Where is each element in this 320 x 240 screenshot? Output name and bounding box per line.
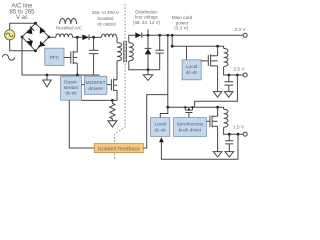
svg-text:Rectified A/C: Rectified A/C bbox=[56, 26, 83, 31]
svg-text:3.3 V: 3.3 V bbox=[234, 27, 246, 33]
svg-text:(48, 24, 12 V): (48, 24, 12 V) bbox=[133, 20, 161, 25]
svg-text:V ac: V ac bbox=[16, 15, 28, 21]
svg-text:(3.3 V): (3.3 V) bbox=[174, 25, 189, 30]
svg-text:Distribution: Distribution bbox=[135, 9, 158, 14]
svg-text:2.5 V: 2.5 V bbox=[233, 66, 245, 72]
svg-text:dc-dc: dc-dc bbox=[65, 91, 77, 97]
svg-text:Down-: Down- bbox=[64, 80, 78, 86]
svg-text:dc-dc: dc-dc bbox=[186, 70, 198, 76]
svg-text:365- to 400-V: 365- to 400-V bbox=[92, 10, 119, 15]
svg-text:buck driver: buck driver bbox=[179, 128, 202, 133]
svg-text:Local: Local bbox=[186, 64, 197, 70]
svg-text:Isolated feedback: Isolated feedback bbox=[98, 146, 141, 152]
svg-text:Synchronous: Synchronous bbox=[177, 122, 205, 127]
svg-text:PFC: PFC bbox=[50, 55, 60, 61]
svg-text:dc-dc: dc-dc bbox=[154, 128, 166, 134]
svg-text:boosted: boosted bbox=[97, 16, 114, 21]
svg-text:drivers: drivers bbox=[88, 86, 103, 92]
svg-text:MOSFET: MOSFET bbox=[86, 80, 106, 86]
svg-text:stream: stream bbox=[64, 85, 79, 91]
svg-text:Local: Local bbox=[154, 122, 165, 128]
svg-text:1.5 V: 1.5 V bbox=[233, 125, 245, 131]
svg-text:dc output: dc output bbox=[97, 22, 116, 27]
svg-text:bus voltage: bus voltage bbox=[135, 15, 159, 20]
